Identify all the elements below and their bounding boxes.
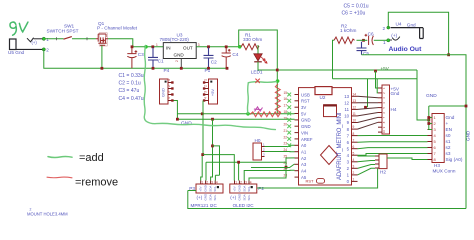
wire 5V drop to P3 pin1 <box>201 114 203 181</box>
regulator U3 7805 TO-220 <box>156 33 200 62</box>
wire LED node to +5V label right <box>279 69 417 71</box>
svg-text:Gnd: Gnd <box>446 115 455 120</box>
svg-text:H0: H0 <box>255 138 261 143</box>
node 1 (battery +) <box>42 37 45 40</box>
svg-text:1: 1 <box>235 180 237 184</box>
svg-text:s3: s3 <box>446 151 451 156</box>
connector H3 MUX Conn <box>428 114 463 174</box>
svg-text:C5 = 0.01u: C5 = 0.01u <box>344 4 369 10</box>
svg-text:SWITCH SPST: SWITCH SPST <box>47 28 79 33</box>
svg-text:C1 = 0.33u: C1 = 0.33u <box>119 73 144 79</box>
wire +5V down to H4 pin1 <box>376 71 379 88</box>
junction R2/C5/C6 <box>362 39 365 42</box>
svg-text:GND: GND <box>466 130 471 141</box>
svg-text:MUX Conn: MUX Conn <box>433 168 456 173</box>
svg-text:3: 3 <box>245 180 247 184</box>
svg-text:A3: A3 <box>301 162 307 167</box>
wire battery+ to switch <box>45 38 64 40</box>
svg-text:SDA: SDA <box>242 194 246 200</box>
wire P2 right to H2 bottom <box>257 169 378 188</box>
svg-text:GND: GND <box>301 124 311 129</box>
wire bus y=162.2 <box>206 158 295 181</box>
svg-text:2: 2 <box>206 180 208 184</box>
node 2 (battery -) <box>42 48 45 51</box>
svg-text:26: 26 <box>284 161 288 165</box>
svg-text:GND: GND <box>204 193 208 201</box>
svg-text:11: 11 <box>353 112 357 116</box>
svg-text:2: 2 <box>175 60 179 62</box>
svg-text:GND: GND <box>237 193 241 201</box>
svg-text:10: 10 <box>353 119 357 123</box>
svg-text:7: 7 <box>353 138 355 142</box>
junction C2 top <box>207 45 210 48</box>
svg-text:P4: P4 <box>164 68 170 73</box>
svg-text:SDA: SDA <box>242 186 246 192</box>
svg-text:SDA: SDA <box>209 186 213 192</box>
svg-text:RST: RST <box>301 99 310 104</box>
svg-text:4: 4 <box>216 180 218 184</box>
svg-text:2: 2 <box>240 180 242 184</box>
junction 5V/P1 <box>201 112 204 115</box>
svg-text:IN: IN <box>166 45 171 50</box>
svg-text:10: 10 <box>344 114 349 119</box>
svg-text:(+): (+) <box>391 33 397 38</box>
svg-text:OLED I2C: OLED I2C <box>233 203 255 208</box>
svg-text:A4: A4 <box>301 169 307 174</box>
wire drop to row11 junction <box>367 79 369 108</box>
junction C4 bottom (rail end) <box>226 67 229 70</box>
wire P1 to 5V net <box>202 101 204 114</box>
svg-text:3: 3 <box>198 43 200 47</box>
svg-text:6: 6 <box>353 145 355 149</box>
svg-text:10: 10 <box>382 130 386 134</box>
svg-text:P - Channel Mosfet: P - Channel Mosfet <box>97 25 138 30</box>
wire Q1 gate to ground rail <box>101 46 103 69</box>
svg-text:SCL: SCL <box>247 194 251 200</box>
svg-text:12: 12 <box>353 106 357 110</box>
junction C3 top <box>131 45 134 48</box>
legend add line <box>48 156 72 157</box>
node green dot below LED node <box>276 79 280 83</box>
wire A4 path <box>244 170 294 180</box>
svg-text:+: + <box>446 121 449 126</box>
capacitor C1 <box>148 48 164 69</box>
wire 5V net to U2 <box>177 113 294 115</box>
wire P2 pin4 riser <box>249 169 286 181</box>
svg-text:C4 = 0.47u: C4 = 0.47u <box>119 96 144 102</box>
svg-text:SCL: SCL <box>213 194 217 200</box>
svg-text:11: 11 <box>345 107 350 112</box>
svg-text:P1: P1 <box>205 68 211 73</box>
svg-text:+5V: +5V <box>381 66 390 71</box>
svg-text:330 Ohm: 330 Ohm <box>243 37 262 42</box>
svg-text:17: 17 <box>284 104 288 108</box>
svg-text:2: 2 <box>167 85 171 87</box>
wire +5V corner down right <box>417 70 429 120</box>
junction sleeve/gnd line <box>447 53 450 56</box>
svg-text:13: 13 <box>344 94 349 99</box>
svg-text:GND: GND <box>161 88 166 97</box>
legend remove line <box>47 176 72 179</box>
svg-text:GND: GND <box>301 118 311 123</box>
wire +9V node to U3 IN <box>133 46 164 48</box>
svg-text:1: 1 <box>353 178 355 182</box>
wire switch to Q1 <box>72 38 96 40</box>
svg-text:C5: C5 <box>363 51 369 56</box>
svg-text:3: 3 <box>353 165 355 169</box>
svg-text:1: 1 <box>203 79 207 81</box>
svg-text:3: 3 <box>211 180 213 184</box>
svg-text:U2: U2 <box>320 95 326 100</box>
svg-text:21: 21 <box>284 129 288 133</box>
connector P1 (+5V header) <box>203 68 218 104</box>
svg-text:C2 = 0.1u: C2 = 0.1u <box>119 81 141 87</box>
svg-text:GND: GND <box>204 185 208 191</box>
wire ground rail <box>44 49 227 68</box>
svg-text:C3 = 47u: C3 = 47u <box>119 88 140 94</box>
svg-text:1: 1 <box>167 79 171 81</box>
svg-text:GND: GND <box>181 121 192 127</box>
svg-text:A5: A5 <box>301 175 307 180</box>
svg-text:A2: A2 <box>301 156 307 161</box>
svg-text:2: 2 <box>203 85 207 87</box>
svg-text:28: 28 <box>284 174 288 178</box>
svg-text:s2: s2 <box>446 145 451 150</box>
marker green add: LED node to 5V wire <box>247 82 276 114</box>
marker red remove: on vertical wire <box>275 84 280 115</box>
svg-text:14: 14 <box>353 93 357 97</box>
resistor R2 1 kOhm <box>334 23 357 43</box>
svg-text:ADAFRUIT_METRO_MINI: ADAFRUIT_METRO_MINI <box>337 112 343 180</box>
svg-text:3: 3 <box>203 91 207 93</box>
svg-text:2: 2 <box>46 47 49 52</box>
svg-text:MOUNT HOLE3.4MM: MOUNT HOLE3.4MM <box>27 211 68 216</box>
svg-text:4: 4 <box>167 97 171 99</box>
svg-text:AREF: AREF <box>301 137 313 142</box>
wire U2 pin 4 to MUX s3 over H2 <box>358 154 428 156</box>
marker red remove: on 5V wire <box>250 112 281 117</box>
svg-text:9: 9 <box>353 125 355 129</box>
svg-text:16: 16 <box>284 97 288 101</box>
svg-text:1 kOhm: 1 kOhm <box>340 28 357 33</box>
junction C4 top <box>225 45 228 48</box>
svg-text:MPR121 I2C: MPR121 I2C <box>191 203 218 208</box>
svg-text:SCL: SCL <box>213 186 217 192</box>
capacitor C2 <box>204 48 218 69</box>
wire U3 OUT +5V rail <box>196 46 241 48</box>
junction LED node <box>276 69 279 72</box>
wire GND drop to P3/P2 <box>211 119 213 180</box>
LED LED1 <box>251 45 267 75</box>
svg-text:A0: A0 <box>301 143 307 148</box>
svg-text:2: 2 <box>353 171 355 175</box>
svg-text:RST: RST <box>306 179 315 184</box>
svg-text:2: 2 <box>383 26 386 31</box>
svg-text:GND: GND <box>174 52 185 57</box>
svg-text:22: 22 <box>284 135 288 139</box>
svg-text:1: 1 <box>201 180 203 184</box>
wires U2 right rows to H4 (dark) <box>358 96 379 98</box>
capacitor values text <box>119 73 144 102</box>
wire GND stub from P4 to U2 GND <box>173 101 295 120</box>
svg-text:15: 15 <box>284 91 288 95</box>
svg-text:U5 Gnd: U5 Gnd <box>8 50 25 55</box>
capacitor C6 (electrolytic, horizontal) <box>365 31 387 45</box>
wire +5V up-over to LED node column <box>239 30 278 114</box>
marker magenta scribble <box>254 107 263 112</box>
svg-text:+5V: +5V <box>199 186 203 191</box>
svg-text:7805(TO-220): 7805(TO-220) <box>160 37 190 42</box>
svg-text:U4: U4 <box>396 21 402 26</box>
svg-text:EN: EN <box>446 127 453 132</box>
svg-text:12: 12 <box>344 101 349 106</box>
junction +5V <box>374 70 377 73</box>
wire gnd down to H4 pin2 <box>376 79 379 93</box>
connector P3 MPR121 I2C <box>189 180 223 207</box>
connector H0 <box>253 138 265 160</box>
node audio tip <box>387 39 390 42</box>
node green dot on 5V wire <box>246 112 250 116</box>
svg-text:3: 3 <box>167 91 171 93</box>
wire Q1 drain to regulator input <box>108 39 133 47</box>
svg-text:4: 4 <box>250 180 252 184</box>
switch SW1 SPST <box>47 24 79 40</box>
junction Q1 gate/rail <box>101 67 104 70</box>
transistor Q1 P-Channel Mosfet <box>96 21 138 46</box>
svg-text:GND: GND <box>237 185 241 191</box>
capacitor C5 <box>357 42 370 57</box>
audio plug arc <box>392 37 400 40</box>
svg-text:=add: =add <box>79 152 104 164</box>
wire U4 sleeve loop <box>388 12 448 55</box>
jack U4 <box>383 21 424 38</box>
wires U2 rows 3,2,1 to H2 <box>358 161 376 162</box>
junction C1 bottom <box>152 67 155 70</box>
svg-text:Gnd: Gnd <box>391 91 400 96</box>
connector H2 <box>375 154 387 174</box>
wire branch y=146 <box>213 146 220 175</box>
svg-text:1: 1 <box>383 40 386 45</box>
svg-text:OUT: OUT <box>183 45 193 50</box>
svg-text:(+): (+) <box>197 195 203 200</box>
svg-text:Sig (A0): Sig (A0) <box>446 157 463 162</box>
svg-text:3V: 3V <box>301 105 306 110</box>
connector H4 <box>378 85 400 134</box>
resistor R1 330 Ohm <box>241 32 262 49</box>
svg-text:A1: A1 <box>301 150 307 155</box>
wire bottom GND rail <box>188 191 466 209</box>
svg-text:C6 = +10u: C6 = +10u <box>342 11 366 17</box>
svg-text:13: 13 <box>353 99 357 103</box>
svg-text:s0: s0 <box>446 133 451 138</box>
wire LED cathode to node <box>258 62 277 70</box>
svg-text:VIN: VIN <box>301 130 308 135</box>
svg-text:H4: H4 <box>391 107 397 112</box>
svg-text:23: 23 <box>284 142 288 146</box>
wire H0 to U2 A0/A1 <box>265 145 295 146</box>
svg-text:1: 1 <box>156 43 158 47</box>
svg-text:USB: USB <box>301 92 310 97</box>
wire U3 GND pin to rail <box>180 59 182 69</box>
wire P3 pin4 feed <box>215 175 219 180</box>
node green junction <box>144 45 148 49</box>
junction right edge <box>465 105 468 108</box>
svg-text:+5V: +5V <box>233 186 237 191</box>
svg-text:GND: GND <box>426 93 437 99</box>
connector P4 (GND header) <box>160 68 174 104</box>
marker red X small near LED bottom <box>255 79 259 83</box>
capacitor C3 (electrolytic) <box>127 48 144 69</box>
svg-text:Gnd: Gnd <box>407 23 416 28</box>
svg-text:C4: C4 <box>232 52 238 57</box>
wire R2 left down to audio line <box>333 40 335 79</box>
svg-text:8: 8 <box>353 132 355 136</box>
svg-text:5V: 5V <box>301 111 306 116</box>
svg-text:H2: H2 <box>380 169 386 174</box>
marker green X marks on U2 left pins <box>287 93 291 97</box>
svg-text:(+): (+) <box>230 195 236 200</box>
svg-text:s1: s1 <box>446 139 451 144</box>
wires U2 pins 7,6,5 to MUX s0,s1,s2 <box>358 136 428 149</box>
svg-text:19: 19 <box>284 116 288 120</box>
wire C5 bottom gnd line to right edge <box>362 55 467 209</box>
op-amp U2 ADAFRUIT_METRO_MINI <box>284 87 358 185</box>
svg-text:SCL: SCL <box>247 186 251 192</box>
svg-text:C3: C3 <box>138 52 144 57</box>
connector P2 OLED I2C <box>230 180 265 207</box>
svg-text:Audio Out: Audio Out <box>389 46 423 53</box>
battery U5 9V <box>8 38 44 55</box>
svg-text:C2: C2 <box>211 59 217 64</box>
wire bus y=154.6 to P2 pin1 <box>203 155 234 181</box>
9V handwritten <box>10 22 16 35</box>
wire A3 path <box>251 164 295 168</box>
svg-text:4: 4 <box>353 158 355 162</box>
svg-text:5: 5 <box>353 151 355 155</box>
svg-text:=remove: =remove <box>75 177 118 189</box>
svg-text:SDA: SDA <box>209 194 213 200</box>
svg-text:4: 4 <box>203 97 207 99</box>
svg-text:C1: C1 <box>158 59 164 64</box>
svg-text:+5V: +5V <box>210 89 215 97</box>
svg-text:(+): (+) <box>32 40 38 45</box>
node green junction at R1 <box>238 45 242 49</box>
marker green add: vertical from +9V node down and across to VIN <box>144 46 275 130</box>
wire H2 right to MUX Sig <box>387 158 428 160</box>
wire audio line R2 to x417 <box>333 78 418 80</box>
wire gnd drop to H3 pins 1-3 <box>429 106 432 130</box>
capacitor C4 (electrolytic) <box>222 48 239 69</box>
junction C1 top <box>151 45 154 48</box>
svg-text:H3: H3 <box>434 163 440 168</box>
svg-text:20: 20 <box>284 123 288 127</box>
junction GND <box>176 118 179 121</box>
